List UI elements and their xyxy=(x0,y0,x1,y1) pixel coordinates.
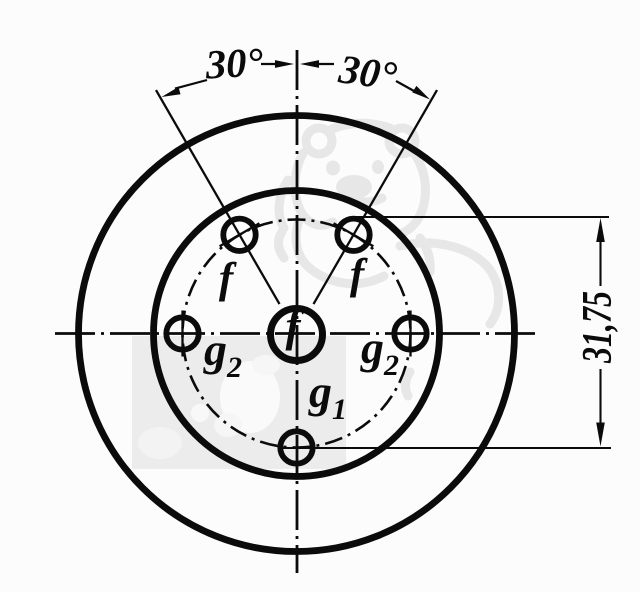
hole g2 right xyxy=(394,317,426,349)
leader arrow right 30deg xyxy=(396,81,414,91)
dimension arrow up xyxy=(596,218,605,242)
leader arrow left 30deg xyxy=(175,80,207,89)
hole g2 left xyxy=(166,317,198,349)
tick through top-right hole xyxy=(334,223,374,246)
dimension line 31,75 xyxy=(599,240,601,286)
dimension arrows at top center xyxy=(275,60,319,68)
tick through top-left hole xyxy=(220,223,260,246)
hole f top-right xyxy=(337,219,369,251)
center hole f xyxy=(271,309,323,361)
svg-text:30°: 30° xyxy=(203,39,264,88)
svg-text:30°: 30° xyxy=(335,45,400,99)
svg-text:31,75: 31,75 xyxy=(575,291,621,364)
radial line left 30deg xyxy=(156,90,280,304)
inner circle xyxy=(154,191,440,477)
radial line right 30deg xyxy=(314,90,438,304)
tick through right hole xyxy=(409,311,411,357)
hole f top-left xyxy=(223,219,255,251)
dimension arrow down xyxy=(596,423,605,447)
extension line bottom (bolt circle bottom) xyxy=(281,447,611,449)
watermark block xyxy=(132,336,346,469)
hole g1 bottom xyxy=(280,431,312,463)
outer circle xyxy=(79,116,515,552)
extension line top (bolt circle top) xyxy=(352,216,609,218)
watermark logo (bear) xyxy=(278,123,498,396)
bolt circle (dash-dot) xyxy=(183,220,411,448)
vertical centerline xyxy=(296,50,299,573)
horizontal centerline xyxy=(55,332,541,335)
tick through left hole xyxy=(181,311,183,357)
